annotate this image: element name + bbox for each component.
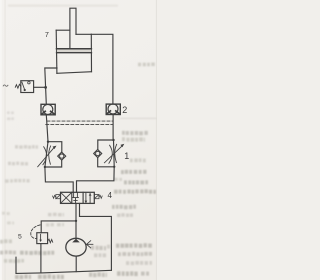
- svg-text:5: 5: [18, 233, 22, 240]
- svg-text:2: 2: [122, 105, 127, 115]
- svg-text:4: 4: [108, 191, 113, 200]
- svg-text:1: 1: [124, 151, 129, 161]
- svg-text:7: 7: [45, 30, 49, 39]
